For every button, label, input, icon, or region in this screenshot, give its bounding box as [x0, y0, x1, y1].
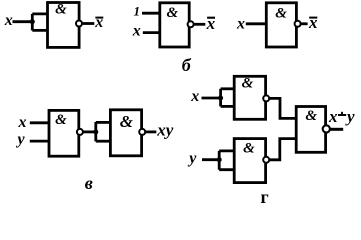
- svg-text:y: y: [187, 150, 197, 167]
- svg-text:&: &: [120, 112, 134, 131]
- svg-text:&: &: [55, 112, 67, 128]
- gate U8 inversion bubble: [323, 125, 330, 132]
- wire: x input to junction: [13, 20, 33, 23]
- svg-text:&: &: [243, 141, 255, 157]
- svg-text:x: x: [190, 88, 199, 105]
- svg-text:1: 1: [134, 4, 141, 19]
- svg-text:x: x: [206, 14, 216, 33]
- NAND gate U1 body: [48, 3, 80, 48]
- junction dot: [218, 96, 223, 101]
- wire: U1 output: [83, 22, 95, 25]
- wire: upper input stub of U6: [221, 87, 236, 90]
- svg-text:x: x: [236, 16, 245, 33]
- wire: x input: [246, 22, 268, 25]
- svg-text:г: г: [261, 187, 269, 207]
- gate U4 inversion bubble: [77, 129, 83, 135]
- output label disjunction bar: [338, 114, 346, 116]
- svg-text:xy: xy: [156, 121, 174, 140]
- gate U6 inversion bubble: [263, 95, 269, 101]
- NAND gate U8 body: [296, 107, 325, 153]
- junction dot: [93, 129, 98, 134]
- svg-text:y: y: [16, 131, 26, 148]
- svg-text:x: x: [94, 14, 103, 31]
- wire: upper input stub of U5: [96, 121, 112, 124]
- wire: vertical branch: [31, 14, 34, 31]
- wire: upper input stub of U1: [32, 12, 48, 15]
- svg-text:&: &: [166, 5, 178, 21]
- svg-text:y: y: [345, 107, 355, 126]
- gate U7 inversion bubble: [263, 157, 269, 163]
- svg-text:в: в: [85, 173, 93, 193]
- wire: lower input stub of U1: [32, 29, 48, 32]
- wire: y input stub: [30, 140, 50, 143]
- NAND gate U2 body: [160, 3, 189, 47]
- wire: U3 output: [301, 22, 308, 25]
- svg-text:&: &: [305, 108, 317, 124]
- wire: lower input stub of U5: [96, 140, 112, 143]
- svg-text:&: &: [275, 6, 287, 22]
- wire: vertical branch: [219, 89, 222, 107]
- gate U2 inversion bubble: [188, 21, 194, 27]
- wire: lower input stub of U6: [221, 105, 236, 108]
- junction dot: [30, 19, 35, 24]
- wire: lower input stub of U7: [219, 168, 235, 171]
- svg-text:&: &: [55, 2, 67, 18]
- NAND gate U4 body: [49, 110, 79, 156]
- svg-text:x: x: [328, 107, 338, 126]
- wire: vertical branch: [94, 122, 97, 141]
- NAND gate U7 body: [234, 139, 265, 183]
- output label x-bar overline: [95, 17, 103, 19]
- gate U1 inversion bubble: [76, 21, 82, 27]
- wire: U4 output to junction: [83, 130, 95, 133]
- wire: vertical branch: [218, 151, 221, 170]
- svg-text:&: &: [242, 76, 254, 92]
- wire: U5 output: [146, 130, 157, 133]
- wire: U8 output: [331, 128, 344, 131]
- NAND gate U3 body: [266, 3, 296, 47]
- wire: y input to junction: [202, 158, 219, 161]
- output label x-bar overline: [309, 17, 317, 19]
- svg-text:x: x: [18, 114, 27, 131]
- output label disjunction tick: [341, 112, 343, 116]
- wire: U6 output elbow to U8 upper input: [269, 98, 296, 118]
- junction dot: [217, 157, 222, 162]
- wire: x input stub: [30, 121, 50, 124]
- NAND gate U6 body: [234, 76, 265, 119]
- wire: input 1 stub: [142, 12, 160, 15]
- wire: upper input stub of U7: [219, 149, 235, 152]
- gate U5 inversion bubble: [139, 129, 145, 135]
- gate U3 inversion bubble: [295, 21, 301, 27]
- wire: U2 output: [194, 23, 205, 26]
- wire: x input to junction: [202, 97, 221, 100]
- svg-text:б: б: [182, 55, 192, 75]
- wire: U7 output elbow to U8 lower input: [270, 139, 297, 160]
- svg-text:x: x: [132, 23, 141, 40]
- output label x-bar overline: [207, 17, 215, 19]
- NAND gate U5 body: [110, 110, 141, 156]
- svg-text:x: x: [4, 12, 13, 29]
- svg-text:x: x: [308, 13, 318, 32]
- wire: input x stub: [143, 31, 160, 34]
